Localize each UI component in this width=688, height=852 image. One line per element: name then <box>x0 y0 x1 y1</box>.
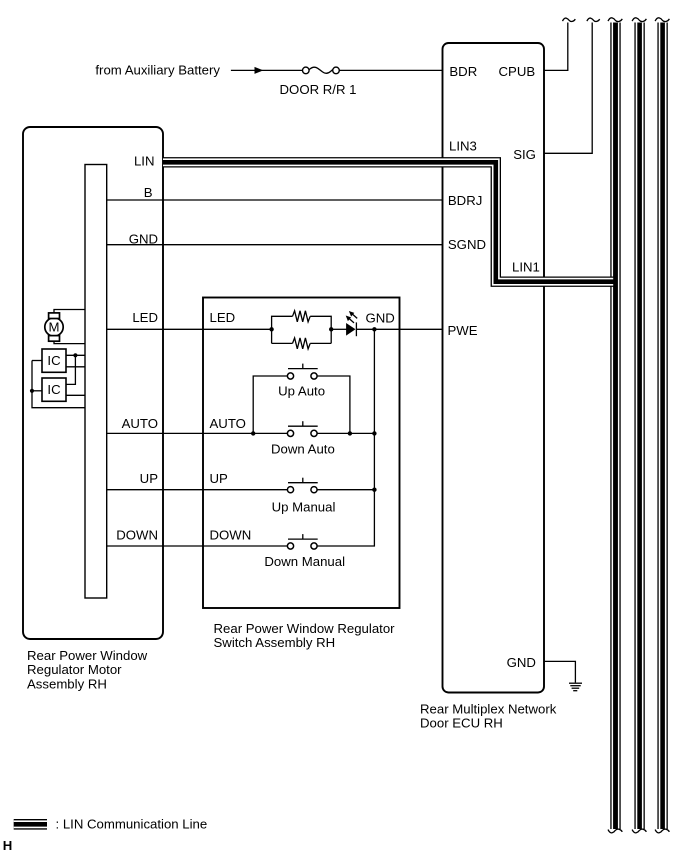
svg-text:IC: IC <box>47 382 61 397</box>
node junction GND bus at AUTO row <box>372 431 376 435</box>
wire LED diode to GND node <box>356 328 399 330</box>
svg-text:Switch Assembly RH: Switch Assembly RH <box>214 635 336 650</box>
LED D1 diode triangle and cathode bar <box>347 322 357 336</box>
wire AUTO row (motor AUTO to switch) <box>107 432 288 434</box>
svg-text:: LIN Communication Line: : LIN Communication Line <box>56 817 208 832</box>
wire battery feed with arrow <box>231 69 303 71</box>
wire resistor to LED diode <box>331 328 346 330</box>
wire CPUB to trunk top <box>544 23 568 71</box>
svg-text:Regulator Motor: Regulator Motor <box>27 662 122 677</box>
arrowhead battery feed <box>255 67 264 74</box>
svg-text:LED: LED <box>132 310 158 325</box>
motor M1 (window motor) <box>45 313 63 341</box>
wire DOWN row (motor DOWN to switch) <box>107 545 288 547</box>
svg-text:PWE: PWE <box>448 323 478 338</box>
IC1 right stub wire with junction <box>66 354 85 356</box>
IC U2 <box>42 378 66 401</box>
resistor R1 (top) <box>293 311 311 322</box>
node junction GND bus at UP row <box>372 488 376 492</box>
svg-text:LIN1: LIN1 <box>512 260 540 275</box>
svg-text:Rear Power Window Regulator: Rear Power Window Regulator <box>214 621 396 636</box>
svg-text:DOOR R/R 1: DOOR R/R 1 <box>280 82 357 97</box>
node junction Up Auto branch left <box>251 431 255 435</box>
svg-text:from Auxiliary Battery: from Auxiliary Battery <box>95 63 220 78</box>
wire left bus to IC2 left pin <box>32 390 42 392</box>
svg-text:LED: LED <box>210 310 236 325</box>
Up Auto branch loop wire <box>253 376 350 433</box>
trunk 3 bottom continuation squiggle <box>655 829 669 833</box>
IC U1 <box>42 349 66 372</box>
trunk line 2 (middle triple line) <box>634 23 644 830</box>
node junction Up Auto branch right <box>348 431 352 435</box>
wire SIG to trunk top <box>544 23 592 154</box>
trunk line 3 (rightmost triple line) <box>657 23 667 830</box>
wire ECU GND to earth <box>544 661 575 682</box>
svg-text:BDRJ: BDRJ <box>448 193 482 208</box>
switch SW1 Up Auto <box>287 364 317 380</box>
svg-text:SGND: SGND <box>448 237 486 252</box>
trunk 1 core overdraw at junction <box>613 23 618 830</box>
svg-text:UP: UP <box>210 471 229 486</box>
LED D1 emission arrow 2 <box>346 316 354 323</box>
svg-text:Door ECU RH: Door ECU RH <box>420 716 503 731</box>
resistor network right junction node <box>329 327 333 331</box>
svg-text:GND: GND <box>507 655 536 670</box>
node junction dot left bus at IC2 <box>30 389 34 393</box>
node GND junction on LED row <box>372 327 376 331</box>
IC1 left stub wire <box>32 360 42 362</box>
ECU box (Rear Multiplex Network Door ECU RH) <box>443 43 545 693</box>
fuse DOOR R/R 1 <box>303 67 340 74</box>
svg-text:DOWN: DOWN <box>210 528 252 543</box>
svg-text:AUTO: AUTO <box>122 416 158 431</box>
svg-text:LIN3: LIN3 <box>449 138 477 153</box>
LIN communication thick line (motor LIN - ECU LIN3 - LIN1 - trunk) <box>163 162 616 281</box>
switch SW4 Down Manual <box>287 534 317 549</box>
motor assembly box (Rear Power Window Regulator Motor Assembly RH) <box>23 127 163 639</box>
svg-text:Rear Multiplex Network: Rear Multiplex Network <box>420 702 557 717</box>
svg-text:BDR: BDR <box>449 64 477 79</box>
node junction dot IC1 stub <box>73 353 77 357</box>
wire LED row (motor LED to switch box) <box>107 328 272 330</box>
left bus wire down from IC1 <box>32 361 85 408</box>
wire B row (motor B to ECU BDRJ) <box>107 199 443 201</box>
resistor parallel loop frame <box>272 316 332 343</box>
wire fuse to ECU BDR pin <box>339 69 442 71</box>
switch SW3 Up Manual <box>287 478 317 493</box>
motor M bottom wire <box>54 341 85 344</box>
wire Up Manual output to GND bus <box>317 489 374 491</box>
svg-text:B: B <box>144 185 153 200</box>
IC2 lower right stub wire <box>66 394 85 396</box>
wire UP row (motor UP to switch) <box>107 489 288 491</box>
trunk 1 top continuation squiggle <box>608 18 622 22</box>
svg-text:Down Auto: Down Auto <box>271 442 335 457</box>
resistor R2 (bottom) <box>293 338 311 349</box>
svg-text:CPUB: CPUB <box>499 64 536 79</box>
wire PWE (switch box to ECU) <box>400 328 443 330</box>
wire GND row (motor GND to ECU SGND) <box>107 244 443 246</box>
svg-text:UP: UP <box>140 471 159 486</box>
svg-text:Assembly RH: Assembly RH <box>27 676 107 691</box>
svg-text:LIN: LIN <box>134 154 155 169</box>
svg-text:Rear Power Window: Rear Power Window <box>27 648 148 663</box>
resistor network left junction node <box>269 327 273 331</box>
svg-text:IC: IC <box>47 353 61 368</box>
legend LIN communication line swatch <box>14 819 47 830</box>
wire Down Auto output to GND bus <box>317 432 374 434</box>
svg-text:GND: GND <box>366 311 395 326</box>
trunk 3 top continuation squiggle <box>655 18 669 22</box>
trunk line 1 (LIN bus, leftmost triple line) <box>610 23 620 830</box>
switch assembly box (Rear Power Window Regulator Switch Assembly RH) <box>203 298 400 609</box>
svg-text:GND: GND <box>129 232 158 247</box>
GND bus vertical wire inside switch box <box>317 329 374 546</box>
IC1 lower right stub wire <box>66 366 85 368</box>
svg-text:Up Auto: Up Auto <box>278 384 325 399</box>
trunk 2 bottom continuation squiggle <box>632 829 646 833</box>
svg-text:Up Manual: Up Manual <box>272 500 336 515</box>
svg-text:Down Manual: Down Manual <box>264 554 345 569</box>
switch SW2 Down Auto <box>287 421 317 436</box>
svg-text:H: H <box>3 838 13 852</box>
SIG continuation squiggle <box>587 18 600 21</box>
trunk 1 bottom continuation squiggle <box>608 829 622 833</box>
LED D1 emission arrow 1 <box>349 311 357 318</box>
motor M top wire <box>54 310 85 314</box>
CPUB continuation squiggle <box>563 18 576 21</box>
trunk 2 top continuation squiggle <box>632 18 646 22</box>
wire from IC1 stub junction down to IC2 right pin <box>66 355 75 384</box>
connector bar inside motor box <box>85 165 107 599</box>
svg-text:SIG: SIG <box>513 147 536 162</box>
svg-text:M: M <box>49 319 60 334</box>
svg-text:DOWN: DOWN <box>116 528 158 543</box>
svg-text:AUTO: AUTO <box>210 416 246 431</box>
ground symbol <box>569 683 582 691</box>
